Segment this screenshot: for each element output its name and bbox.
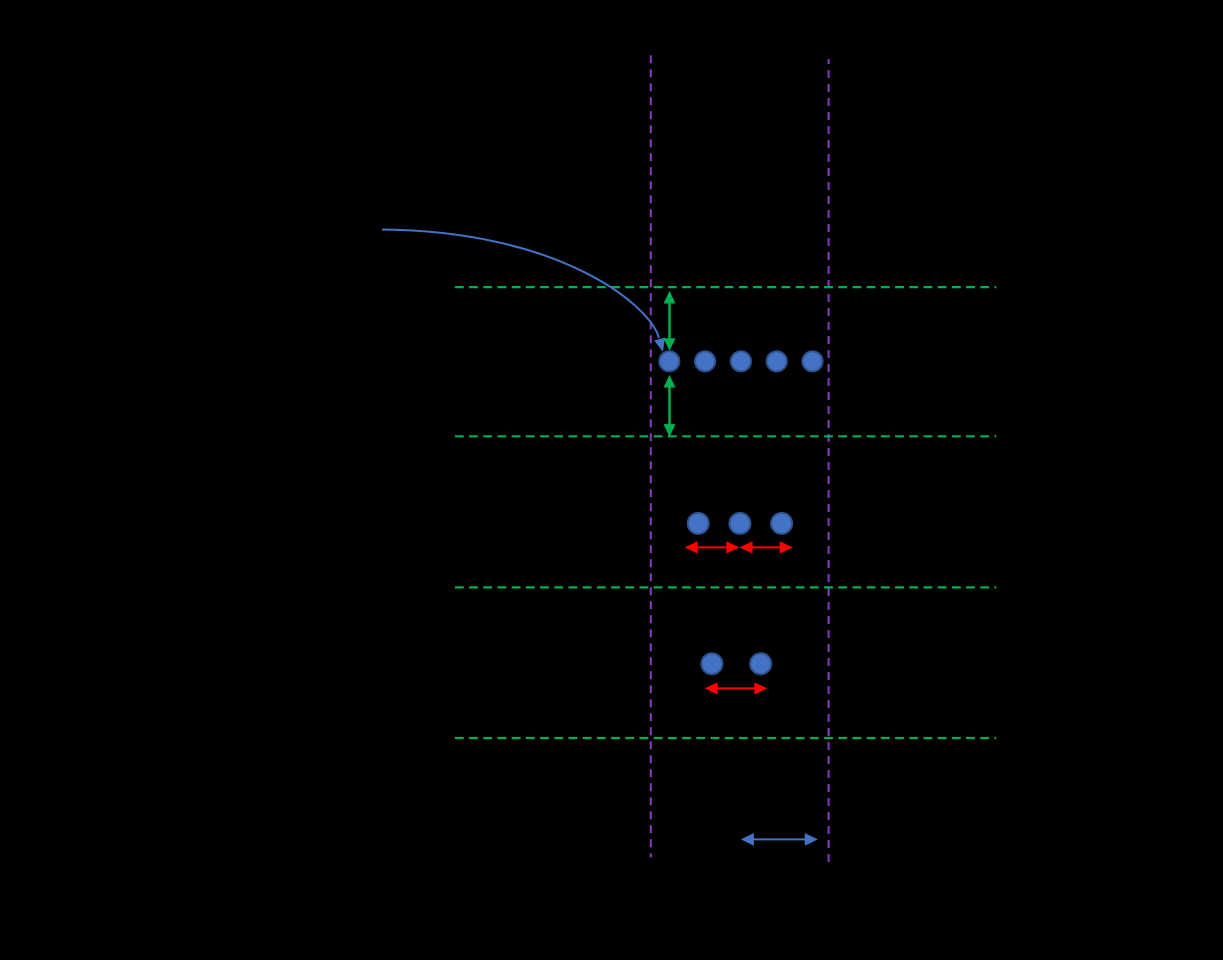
green double arrow upper (distance to line 1) xyxy=(664,291,676,351)
atom row 1: five blue circles xyxy=(659,351,822,371)
atom row3 circle 2 xyxy=(750,653,771,674)
atom row 3: two blue circles xyxy=(701,653,771,674)
red double arrow row2 left spacing xyxy=(685,541,740,553)
atom row2 circle 3 xyxy=(771,513,792,534)
green dashed horizontal line 2 xyxy=(455,435,996,437)
atom row1 circle 3 xyxy=(731,351,751,371)
purple dashed vertical line right xyxy=(827,59,829,862)
atom row2 circle 1 xyxy=(688,513,709,534)
green dashed horizontal line 3 xyxy=(455,586,996,588)
red double arrow row3 spacing xyxy=(705,682,768,694)
atom row1 circle 1 xyxy=(659,351,679,371)
atom row1 circle 2 xyxy=(695,351,715,371)
green dashed horizontal line 4 xyxy=(455,737,996,739)
green dashed horizontal line 1 xyxy=(455,286,996,288)
blue double arrow bottom (period) xyxy=(741,833,818,846)
atom row1 circle 5 xyxy=(802,351,822,371)
atom row 2: three blue circles xyxy=(688,513,792,534)
purple dashed vertical line left xyxy=(650,55,652,857)
atom row1 circle 4 xyxy=(767,351,787,371)
red double arrow row2 right spacing xyxy=(740,541,793,553)
green double arrow lower (distance to line 2) xyxy=(664,375,676,437)
atom row2 circle 2 xyxy=(729,513,750,534)
atom row3 circle 1 xyxy=(701,653,722,674)
blue curved arrow (potential curve) xyxy=(382,230,659,339)
blue curved arrow head xyxy=(654,338,665,352)
